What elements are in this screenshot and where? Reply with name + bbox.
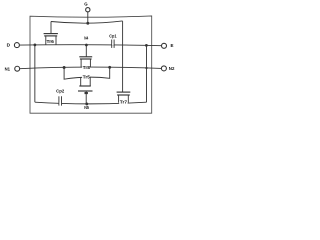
svg-text:N1: N1 — [5, 66, 11, 71]
wire W2 — [19, 45, 161, 46]
svg-text:G: G — [84, 1, 88, 6]
terminal N2 — [161, 66, 166, 71]
node W3-lineA junction — [145, 67, 147, 69]
outer box — [30, 16, 152, 113]
svg-text:Tr7: Tr7 — [120, 100, 128, 105]
node G junction on W1 — [86, 22, 89, 25]
node N5 — [85, 103, 88, 106]
wire W1 gate bus — [51, 21, 123, 23]
terminal D — [14, 43, 19, 48]
wire G lead — [87, 12, 89, 23]
svg-text:E: E — [171, 43, 174, 48]
svg-text:Tr5: Tr5 — [83, 74, 91, 79]
wire line A — [146, 45, 148, 102]
svg-text:D: D — [7, 43, 11, 48]
wire B1 branch — [34, 45, 36, 102]
wire Tr7 gate lead — [122, 21, 124, 92]
terminal E — [162, 43, 167, 48]
wire Tr5 branch — [64, 67, 110, 79]
svg-text:N5: N5 — [84, 105, 89, 110]
wire N5 bottom — [35, 102, 147, 104]
node W2-lineA junction — [145, 44, 148, 47]
node W2-B1 junction — [34, 44, 37, 47]
svg-text:Tr6: Tr6 — [47, 39, 55, 44]
capacitor Cp2 — [58, 96, 60, 105]
label N4 — [84, 36, 89, 40]
transistor Tr6 — [44, 33, 58, 35]
Tr5 gate contact blob — [84, 92, 87, 94]
wire Tr6 gate lead — [50, 22, 52, 34]
node N4 — [85, 44, 88, 47]
label Tr7 — [119, 100, 127, 105]
node W3 left junction — [63, 66, 66, 69]
terminal G — [86, 8, 90, 12]
capacitor Cp1 — [111, 40, 113, 48]
label Tr5 — [82, 74, 90, 79]
transistor Tr5 — [80, 77, 82, 86]
svg-text:Cp2: Cp2 — [56, 89, 65, 94]
wire Tr5 gate lead — [85, 91, 87, 104]
cap gap mask Cp1 — [112, 43, 113, 45]
label Tr8 — [82, 65, 90, 70]
wire Tr8 gate lead — [85, 45, 87, 57]
transistor Tr8 — [79, 56, 92, 58]
cap gap mask Cp2 — [59, 102, 61, 104]
terminal N1 — [15, 66, 20, 71]
transistor Tr7 — [117, 91, 131, 93]
svg-text:Tr8: Tr8 — [83, 65, 91, 70]
node W3 right junction — [108, 66, 111, 69]
wire W3 — [20, 67, 162, 69]
svg-text:Cp1: Cp1 — [109, 33, 117, 38]
svg-text:N4: N4 — [84, 36, 88, 41]
svg-text:N2: N2 — [169, 66, 175, 71]
